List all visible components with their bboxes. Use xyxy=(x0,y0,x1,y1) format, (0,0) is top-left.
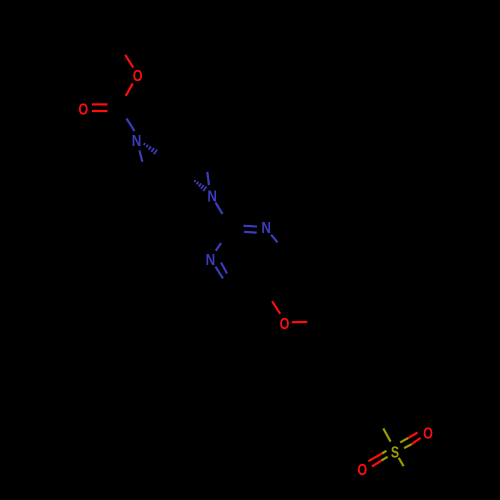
svg-text:O: O xyxy=(423,425,433,442)
wire: S to methyl half-bond xyxy=(399,458,404,466)
wire: N2 to pyrimidine C2 half-bond xyxy=(216,203,223,215)
svg-text:S: S xyxy=(391,445,399,462)
wire: S=O5 double bond line 1 oxygen half xyxy=(368,454,382,462)
wire: carbamate C to N half-bond xyxy=(127,119,135,132)
wire: N1 hashed stereo bond to bridgehead C xyxy=(144,143,157,154)
wire: S=O5 double bond line 1 sulfur half xyxy=(382,451,386,454)
wire: S=O4 double bond line 2 oxygen half xyxy=(412,438,421,444)
wire: methyl CH3 to ester O half-bond xyxy=(125,55,133,68)
wire: C=O double bond line 1 xyxy=(92,103,108,105)
wire: N2 hashed stereo bond to bridgehead C xyxy=(194,180,206,191)
wire: S=O4 double bond line 1 oxygen half xyxy=(408,433,417,438)
svg-text:O: O xyxy=(280,316,290,333)
wire: ether O to CH2 half-bond xyxy=(292,321,307,323)
svg-text:N: N xyxy=(206,252,216,269)
wire: ester O to carbamate C half-bond xyxy=(126,83,133,95)
wire: pyrimidine C2=N3 double bond line 1 xyxy=(244,225,258,228)
wire: N3 to pyrimidine C4 half-bond xyxy=(271,235,277,243)
wire: S=O4 double bond line 2 sulfur half xyxy=(404,444,412,448)
svg-text:N: N xyxy=(132,133,142,150)
wire: S=O4 double bond line 1 sulfur half xyxy=(400,438,408,443)
wire: N2 to ring CH2 upward half-bond xyxy=(207,172,209,185)
svg-text:O: O xyxy=(133,68,143,85)
svg-text:N: N xyxy=(261,220,271,237)
wire: chain C to S half-bond xyxy=(383,428,390,441)
wire: S=O5 double bond line 2 sulfur half xyxy=(381,457,387,461)
svg-text:O: O xyxy=(78,101,88,118)
wire: pyrimidine C2=N3 double bond line 2 xyxy=(244,231,257,234)
wire: N1 to ring CH2 half-bond xyxy=(139,150,142,161)
wire: C=O double bond line 2 xyxy=(92,110,108,112)
svg-text:O: O xyxy=(357,462,367,479)
wire: pyrimidine N4=C6 double bond line 1 xyxy=(216,267,224,279)
wire: S=O5 double bond line 2 oxygen half xyxy=(372,461,381,467)
wire: pyrimidine C5 to ether O half-bond xyxy=(272,301,280,314)
wire: pyrimidine N4=C6 double bond line 2 xyxy=(221,263,227,274)
wire: N4 to pyrimidine C2 half-bond xyxy=(216,243,221,251)
